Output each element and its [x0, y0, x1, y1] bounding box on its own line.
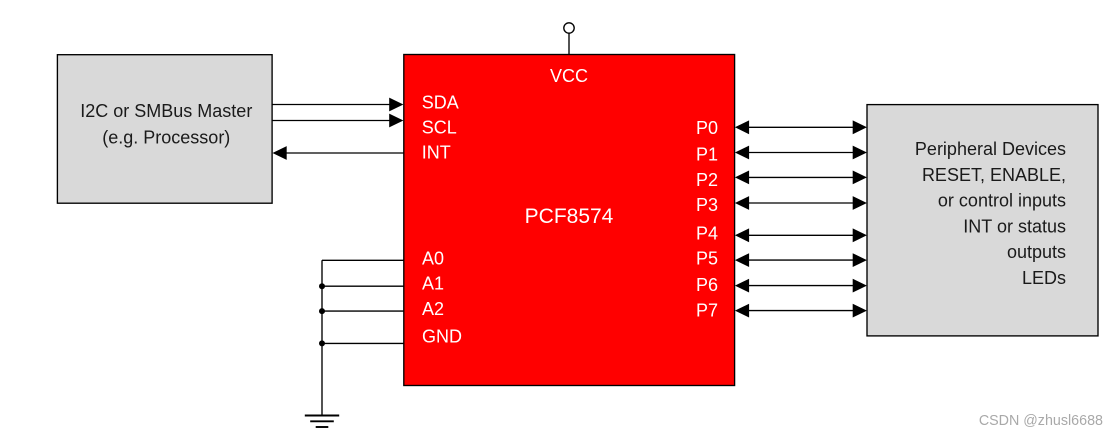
wire INT (PCF8574 to master) [286, 152, 404, 154]
svg-text:outputs: outputs [1007, 242, 1066, 262]
svg-text:SDA: SDA [422, 93, 459, 113]
svg-text:P5: P5 [696, 249, 718, 269]
wire A1 [322, 285, 404, 287]
svg-text:I2C or SMBus Master: I2C or SMBus Master [80, 101, 252, 121]
svg-text:RESET, ENABLE,: RESET, ENABLE, [922, 165, 1066, 185]
svg-text:INT: INT [422, 143, 451, 163]
junction A1 [319, 283, 325, 289]
wire P6 (bidirectional) [735, 279, 867, 293]
junction GND [319, 340, 325, 346]
ground symbol [305, 416, 339, 428]
svg-text:P6: P6 [696, 275, 718, 295]
svg-text:GND: GND [422, 326, 462, 346]
svg-text:CSDN @zhusl6688: CSDN @zhusl6688 [979, 413, 1103, 429]
arrowhead SDA [389, 98, 403, 112]
arrowhead INT [273, 146, 287, 160]
svg-text:LEDs: LEDs [1022, 268, 1066, 288]
block: Peripheral Devices [867, 105, 1098, 336]
svg-text:(e.g. Processor): (e.g. Processor) [102, 127, 230, 147]
wire P3 (bidirectional) [735, 196, 867, 210]
VCC terminal circle [564, 23, 574, 33]
wire A2 [322, 310, 404, 312]
junction A2 [319, 308, 325, 314]
wire GND [322, 342, 404, 344]
wire SDA (master to PCF8574) [272, 104, 390, 106]
wire P1 (bidirectional) [735, 146, 867, 160]
svg-text:or control inputs: or control inputs [938, 191, 1066, 211]
svg-text:VCC: VCC [550, 66, 588, 86]
svg-text:PCF8574: PCF8574 [525, 205, 614, 228]
wire P2 (bidirectional) [735, 171, 867, 185]
wire A0 [322, 259, 404, 261]
svg-text:A2: A2 [422, 299, 444, 319]
svg-text:P7: P7 [696, 300, 718, 320]
svg-text:A1: A1 [422, 274, 444, 294]
svg-text:Peripheral Devices: Peripheral Devices [915, 139, 1066, 159]
svg-text:A0: A0 [422, 248, 444, 268]
wire VCC [568, 33, 570, 54]
svg-text:P1: P1 [696, 144, 718, 164]
svg-text:INT or status: INT or status [963, 216, 1066, 236]
svg-text:SCL: SCL [422, 117, 457, 137]
wire P0 (bidirectional) [735, 120, 867, 134]
svg-text:P3: P3 [696, 195, 718, 215]
wire P5 (bidirectional) [735, 253, 867, 267]
wire P4 (bidirectional) [735, 228, 867, 242]
wire SCL (master to PCF8574) [272, 120, 390, 122]
block: I2C or SMBus Master [57, 55, 272, 204]
wire P7 (bidirectional) [735, 304, 867, 318]
arrowhead SCL [389, 114, 403, 128]
svg-text:P0: P0 [696, 118, 718, 138]
wire: vertical bus to ground [321, 260, 323, 415]
op-amp? no: IC U1 PCF8574 block [404, 55, 735, 386]
svg-text:P2: P2 [696, 170, 718, 190]
svg-text:P4: P4 [696, 223, 718, 243]
